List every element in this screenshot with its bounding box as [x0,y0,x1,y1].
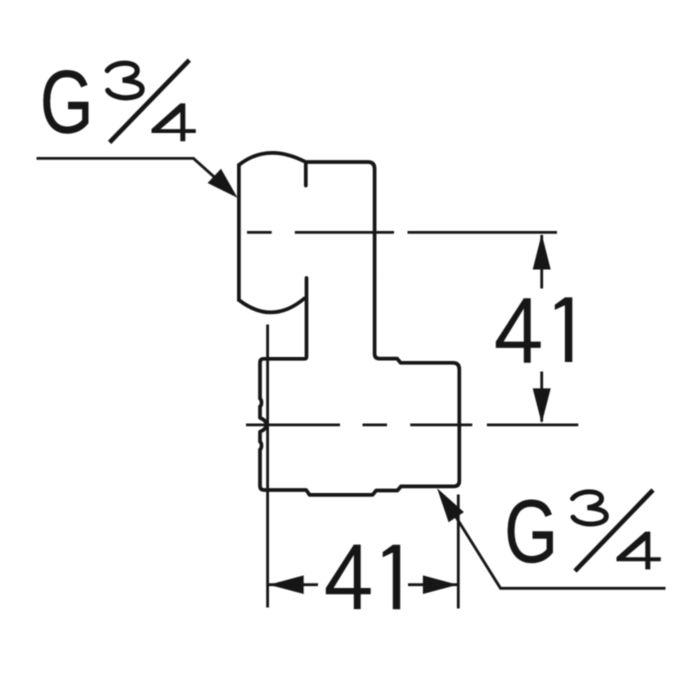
svg-text:G: G [504,481,557,581]
svg-text:G: G [40,52,93,152]
